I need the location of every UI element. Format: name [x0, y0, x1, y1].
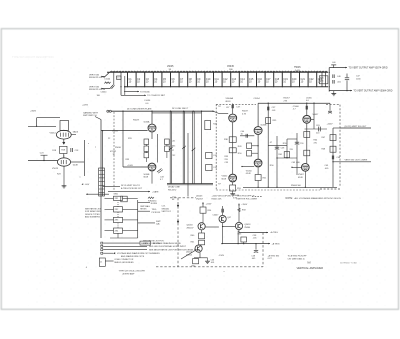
wire right of V5034 column: [157, 134, 159, 163]
wire V5052 cathode: [232, 182, 234, 185]
wire V5057 plate riser: [313, 103, 315, 129]
capacitor C5048: [332, 156, 334, 160]
wire wafer to common: [123, 230, 138, 232]
svg-text:PICKOFF: PICKOFF: [152, 212, 161, 214]
capacitor C5033: [157, 169, 162, 173]
capacitor C5058: [254, 250, 258, 252]
svg-text:DEVICE TYPES: DEVICE TYPES: [85, 214, 100, 216]
svg-text:NOTE:: NOTE:: [286, 197, 294, 200]
wire dashed enclosure bottom: [320, 188, 340, 190]
ground pickoff: [205, 261, 210, 263]
capacitor C9 of delay line: [196, 72, 201, 88]
svg-text:x: x: [95, 146, 96, 148]
svg-text:C.B.: C.B.: [162, 206, 166, 208]
svg-text:6AU6: 6AU6: [73, 131, 79, 134]
resistor R5054: [200, 207, 206, 213]
switch wafer section SW4: [105, 228, 123, 233]
legend connector box symbol: [99, 258, 105, 266]
ground input stage: [62, 186, 67, 188]
capacitor C7 of delay line: [179, 72, 184, 88]
termination network box: [319, 76, 328, 84]
arrow marks on enclosure left: [177, 205, 179, 207]
wire Q5043 to Q5047: [205, 226, 219, 228]
wire delay line single run: [201, 111, 203, 183]
resistor R5031: [144, 139, 149, 145]
svg-text:L5034: L5034: [145, 100, 152, 102]
resistor R5055: [266, 118, 271, 124]
svg-text:RED LED IN EXTERNAL HORIZ INP: RED LED IN EXTERNAL HORIZ INPUT: [149, 245, 187, 248]
wire V5040A plate up: [232, 104, 234, 114]
resistor R5063: [241, 237, 247, 242]
wire C5044 to bus: [113, 72, 115, 85]
resistor R5047: [330, 135, 336, 141]
capacitor C5023: [41, 154, 48, 156]
capacitor C15 of delay line: [247, 72, 254, 88]
capacitor C2 of delay line: [136, 72, 141, 88]
wire Q5043 collector supply: [202, 202, 204, 207]
wire bias chain vertical: [267, 103, 269, 187]
svg-text:C5047: C5047: [213, 215, 220, 217]
capacitor C11 of delay line: [213, 72, 219, 88]
wire driver plate line: [111, 110, 213, 112]
svg-text:VERT SIG OUT LOWER: VERT SIG OUT LOWER: [345, 160, 368, 162]
wire termination output node: [328, 68, 330, 92]
svg-text:GANGED WITH: GANGED WITH: [83, 111, 98, 114]
wire Q5054 emitter: [199, 252, 201, 258]
wire second drop: [124, 76, 126, 95]
capacitor C5046a: [333, 74, 334, 78]
capacitor C17 of delay line: [265, 72, 272, 88]
transistor Q5047: [219, 215, 226, 222]
svg-text:+225V DECOUPLED: +225V DECOUPLED: [212, 196, 232, 198]
svg-text:L5065: L5065: [306, 97, 312, 99]
svg-text:RG-65/U: RG-65/U: [168, 189, 177, 191]
inductor L5046: [331, 64, 336, 66]
resistor R5048: [330, 146, 336, 152]
wire between cascode tubes: [257, 135, 259, 159]
wire V5014 cathode down: [63, 139, 65, 143]
capacitor C10 of delay line: [204, 72, 211, 88]
resistor R5061: [199, 240, 205, 245]
wire V5034A cathode down: [151, 132, 153, 139]
svg-text:FROM PLUG-IN: FROM PLUG-IN: [89, 89, 105, 91]
wire R5061 to Q5054: [201, 244, 203, 247]
wire V5067 cathode: [304, 172, 306, 188]
transistor Q5054: [195, 245, 202, 252]
wire pickoff dashed enclosure right: [262, 233, 264, 267]
svg-text:NORM: NORM: [151, 203, 157, 205]
svg-text:(DLYD) VERT SIG OUT: (DLYD) VERT SIG OUT: [345, 126, 368, 128]
svg-text:TO R5046: TO R5046: [140, 91, 150, 93]
arrow supply Q5053: [238, 204, 240, 206]
svg-text:V5014: V5014: [50, 133, 57, 135]
resistor R5041: [205, 121, 211, 130]
resistor R5039: [229, 148, 236, 153]
wire between R5032 R5033: [145, 152, 147, 153]
wire bias h1: [268, 145, 287, 147]
capacitor C5058m: [275, 147, 279, 149]
svg-text:Q5053: Q5053: [244, 224, 251, 226]
resistor R5033: [144, 153, 149, 158]
wire V5023 plate right: [71, 161, 85, 163]
wire delay line bottom bus: [124, 86, 328, 88]
capacitor C22 of delay line: [308, 72, 315, 88]
wire wafer dashed link 3: [117, 223, 119, 228]
wire output column down: [306, 124, 308, 164]
svg-text:C5044: C5044: [101, 92, 108, 94]
tube V5040B: [254, 127, 262, 135]
wire cathode line: [288, 186, 337, 188]
wire mid bias vertical 3: [296, 133, 298, 175]
svg-text:SWP MAG: SWP MAG: [140, 205, 150, 208]
svg-text:A VERT AMP: A VERT AMP: [123, 272, 135, 275]
wire Q5043 emitter down: [201, 230, 203, 233]
wire ganged diagonal: [95, 117, 101, 120]
wire feedback top: [37, 117, 60, 119]
svg-text:VOLTAGE AND WAVEFORM CKT NUMBE: VOLTAGE AND WAVEFORM CKT NUMBERS: [117, 252, 160, 255]
legend item 3: [101, 248, 202, 251]
wire V5023 cathode down: [63, 166, 65, 171]
capacitor C20 of delay line: [290, 72, 297, 88]
svg-text:SEE MECH PARTS LIST FOR SWITCH: SEE MECH PARTS LIST FOR SWITCH DETAIL PA…: [149, 248, 202, 251]
wire pickoff dashed enclosure left: [177, 198, 179, 267]
wire V5057 plate right: [311, 118, 314, 120]
svg-text:4.7K: 4.7K: [242, 113, 247, 115]
wire mid bias vertical 2: [286, 139, 288, 158]
tube V5023: [57, 158, 70, 166]
transistor Q5043: [198, 223, 205, 230]
wire to pickoff label: [103, 185, 120, 187]
svg-text:FROM PLUG-IN: FROM PLUG-IN: [89, 77, 105, 79]
legend item 2: [101, 245, 187, 248]
wire below R5036: [166, 152, 168, 159]
wire R5054 to Q5043: [202, 213, 204, 222]
tube V5034A: [148, 124, 156, 132]
svg-text:R5045 10K: R5045 10K: [212, 198, 223, 200]
capacitor C5037: [232, 105, 234, 109]
resistor R5035: [165, 139, 170, 145]
svg-text:+A TRIG: +A TRIG: [270, 231, 278, 234]
arrow +225V into pickoff: [202, 202, 204, 204]
tube V5067: [301, 163, 309, 171]
wire switch out 2: [138, 210, 150, 212]
wire V5034B cathode to bus: [151, 171, 153, 183]
wire amplifier dashed enclosure bottom: [216, 189, 320, 191]
resistor R5071: [121, 196, 127, 202]
wire to V5040A grid a: [213, 111, 219, 113]
svg-text:〈A〉: 〈A〉: [306, 260, 313, 264]
wire pickoff tap 2: [121, 94, 146, 96]
wire below R5033: [145, 158, 147, 162]
svg-text:27K: 27K: [284, 100, 288, 102]
capacitor C14 of delay line: [239, 72, 246, 88]
svg-text:2N2207: 2N2207: [196, 198, 204, 200]
svg-text:5040B: 5040B: [261, 124, 267, 126]
svg-text:SEE PARTS LIST: SEE PARTS LIST: [85, 207, 102, 210]
svg-text:AND WAVEFORM CKTS: AND WAVEFORM CKTS: [121, 255, 145, 258]
svg-text:TRIG: TRIG: [152, 209, 157, 211]
wire V5050 grid: [242, 166, 254, 168]
capacitor C19 of delay line: [282, 72, 289, 88]
svg-text:DLY LINE 186 FT: DLY LINE 186 FT: [172, 108, 189, 110]
svg-text:CKT (SEE DIAG 2): CKT (SEE DIAG 2): [288, 257, 305, 260]
svg-text:547/RM: 547/RM: [141, 243, 148, 245]
tube V5034B: [148, 163, 156, 171]
capacitor C13 of delay line: [230, 72, 237, 88]
legend item 4: [101, 252, 160, 258]
capacitor C5040g: [246, 134, 248, 138]
wire R5050 to node: [252, 152, 259, 154]
wire cathode line far left: [243, 186, 268, 188]
wire dashed stub R5043: [252, 195, 262, 197]
svg-text:2N964: 2N964: [186, 254, 193, 256]
switch wafer section SW3: [105, 217, 123, 222]
svg-text:R5066 560: R5066 560: [291, 185, 302, 187]
svg-text:T.P.: T.P.: [218, 106, 222, 108]
resistor R5018: [60, 146, 67, 153]
svg-text:SWP: SWP: [156, 221, 161, 223]
capacitor C16 of delay line: [256, 72, 263, 88]
svg-text:VERT SIG: VERT SIG: [89, 74, 99, 76]
svg-text:R5037: R5037: [242, 111, 249, 113]
resistor R5060: [199, 233, 205, 239]
svg-text:x: x: [88, 143, 89, 145]
svg-text:V5057: V5057: [313, 114, 320, 116]
wire legend connector stub: [105, 260, 113, 262]
svg-text:V5067: V5067: [298, 174, 305, 176]
wire trig sig out upper: [239, 232, 268, 234]
svg-text:V5050: V5050: [246, 170, 253, 172]
svg-text:SWP SWITCH: SWP SWITCH: [83, 115, 97, 117]
wire delay line top bus: [107, 71, 328, 73]
svg-text:TRIG PICKOFF CF: TRIG PICKOFF CF: [237, 196, 256, 198]
resistor R5045 termination leg 1: [321, 72, 323, 87]
wire switch out 1: [138, 201, 150, 203]
tube V5057: [303, 115, 311, 123]
tube V5040A: [229, 114, 237, 122]
wire C5058 leg: [255, 244, 257, 250]
wire left drop to pickoff: [120, 72, 122, 95]
wire Q5047 to Q5053 base: [223, 226, 236, 228]
wire bias h2: [287, 138, 297, 140]
capacitor C5059: [295, 142, 299, 144]
ground at termination: [331, 94, 336, 96]
resistor R5062: [193, 259, 199, 264]
svg-text:2N2207: 2N2207: [187, 227, 195, 229]
svg-text:Q5054: Q5054: [186, 252, 193, 254]
svg-text:TO C5046 RC NET: TO C5046 RC NET: [147, 95, 166, 97]
svg-text:C5054: C5054: [254, 98, 261, 100]
wire switch common vertical: [137, 200, 139, 238]
wire V5040B grid: [240, 135, 254, 137]
arrow trigger output: [268, 243, 270, 245]
capacitor C5046b: [333, 80, 334, 84]
svg-text:TO A TRIG PICKOFF: TO A TRIG PICKOFF: [288, 255, 308, 258]
wire upper input to bus: [102, 72, 110, 76]
resistor R5036: [165, 146, 170, 152]
svg-text:x: x: [80, 177, 81, 179]
capacitor C5057: [267, 107, 269, 111]
wire V5057 cathode lateral: [305, 128, 328, 130]
svg-text:6DJ8: 6DJ8: [73, 164, 79, 166]
svg-text:L5045: L5045: [167, 66, 174, 68]
svg-text:+150V: +150V: [241, 204, 248, 206]
svg-text:+GATE: +GATE: [152, 190, 159, 193]
wire Q5047 emitter down: [222, 223, 224, 244]
capacitor C5 of delay line: [161, 72, 166, 88]
wire lower branch: [86, 193, 109, 195]
wire delay line partial run: [187, 133, 189, 197]
connector J5030 (cable header): [99, 168, 105, 196]
svg-text:DELAY LINE: DELAY LINE: [168, 186, 180, 189]
capacitor C23 of delay line: [316, 72, 323, 88]
resistor R5064: [304, 132, 310, 138]
svg-text:SHIELD GROUNDED: SHIELD GROUNDED: [114, 262, 134, 264]
svg-text:+A TRIG SIG: +A TRIG SIG: [268, 254, 280, 257]
resistor R5050: [247, 151, 252, 156]
resistor R5059: [284, 152, 289, 158]
arrow current mark: [63, 142, 65, 144]
wire delay line bottom return 1: [167, 183, 213, 185]
wire V5034B grid: [123, 166, 148, 168]
wire between R5035 R5036: [166, 145, 168, 147]
svg-text:Q5043: Q5043: [187, 225, 194, 227]
wire dashed enclosure top: [326, 104, 340, 106]
svg-text:A TRIG PICKOFF CKT: A TRIG PICKOFF CKT: [121, 187, 143, 190]
svg-text:TYPE 547 OSCILLOSCOPE: TYPE 547 OSCILLOSCOPE: [119, 271, 146, 273]
wire to V5034A grid: [101, 130, 148, 132]
svg-text:SW5031: SW5031: [162, 208, 171, 210]
wire lower signal output: [340, 161, 371, 163]
svg-text:R5057: R5057: [284, 98, 291, 100]
wire lower output to vert output amp: [329, 90, 352, 92]
svg-text:+350V: +350V: [30, 111, 37, 113]
wire +225V rail: [258, 102, 330, 104]
svg-text:DLYD VERT SIG TO: DLYD VERT SIG TO: [121, 185, 140, 187]
capacitor C5062: [328, 111, 332, 113]
svg-text:VERTICAL AMPLIFIER: VERTICAL AMPLIFIER: [297, 266, 324, 270]
svg-text:5034B: 5034B: [144, 174, 150, 176]
svg-text:-150V: -150V: [219, 255, 225, 257]
wire wafer dashed link 2: [117, 212, 119, 217]
svg-text:COAX CONNECTOR: COAX CONNECTOR: [114, 258, 134, 261]
svg-text:T.P.: T.P.: [218, 184, 222, 186]
svg-text:+225V: +225V: [327, 124, 334, 126]
resistor R5070 squiggle: [148, 197, 154, 199]
wire V5050 cathode: [257, 167, 259, 174]
wire Q5053 emitter down: [238, 230, 240, 233]
wire wafer dashed link 1: [117, 202, 119, 207]
svg-text:6DJ8: 6DJ8: [226, 101, 232, 103]
wire upper signal output: [340, 127, 371, 129]
svg-text:FOR SEMICOND: FOR SEMICOND: [85, 211, 101, 213]
capacitor C5018: [71, 148, 73, 152]
wire wafer to common: [123, 219, 138, 221]
svg-text:VERT DLY: VERT DLY: [162, 211, 172, 213]
resistor R5042: [206, 152, 212, 158]
wire output divider vertical: [332, 128, 334, 187]
svg-text:2N964: 2N964: [244, 227, 251, 229]
svg-text:AND NUMBERS: AND NUMBERS: [85, 216, 100, 219]
wire delay line pair 2: [183, 111, 185, 183]
wire between R5031 R5032: [145, 145, 147, 147]
wire wafer bottom drop: [117, 233, 119, 238]
svg-text:R5030: R5030: [115, 147, 122, 149]
capacitor C8 of delay line: [187, 72, 192, 88]
resistor R5045 termination leg 2: [325, 72, 327, 87]
capacitor C4 of delay line: [153, 72, 158, 88]
wire diagonal into Q5054: [181, 250, 195, 259]
svg-text:5034A: 5034A: [144, 121, 150, 124]
svg-text:+225V: +225V: [206, 204, 213, 206]
wire rail corner down: [329, 103, 331, 110]
wire driver feedback vertical: [122, 111, 124, 167]
legend item 1: [101, 241, 182, 245]
capacitor C5045p: [222, 209, 224, 213]
svg-text:+50V: +50V: [85, 184, 90, 186]
arrow dly vert sig left: [82, 183, 84, 185]
wire bias h3: [277, 157, 297, 159]
resistor R5058 tick: [238, 208, 241, 212]
wire switch out 3: [138, 222, 155, 224]
wire R5051 to cathode line: [257, 181, 259, 188]
svg-text:V5040A: V5040A: [226, 97, 234, 100]
box LC network: [117, 76, 122, 79]
wire Q5053 collector: [238, 204, 240, 223]
resistor R5051: [255, 175, 261, 181]
svg-text:Q5043: Q5043: [196, 196, 203, 198]
wire V5034A plate up: [151, 111, 153, 124]
transistor Q5053: [235, 222, 242, 229]
svg-text:547/RM547 TU AB: 547/RM547 TU AB: [340, 261, 357, 264]
wire feedback left: [36, 118, 38, 127]
wire wafer to common: [123, 208, 138, 210]
svg-text:TO VERT OUTPUT AMP V5074 GRID: TO VERT OUTPUT AMP V5074 GRID: [349, 67, 388, 70]
wire amplifier dashed enclosure top: [216, 103, 256, 105]
wire V5014 plate stub: [71, 134, 76, 136]
switch wafer section SW1: [105, 196, 123, 200]
wire delay line pair 3: [193, 111, 195, 183]
resistor R5049: [247, 143, 252, 149]
svg-text:ALL VOLTAGES MEASURED WITH NO: ALL VOLTAGES MEASURED WITH NO SIG IN: [295, 197, 342, 200]
continuation slash marks: [169, 147, 173, 150]
inductor humps on top bus: [110, 71, 328, 72]
capacitor C6 of delay line: [170, 72, 175, 88]
capacitor C5044: [110, 85, 113, 89]
capacitor C12 of delay line: [222, 72, 229, 88]
wire wafer to common: [123, 197, 138, 199]
wire delay line bottom return 2: [167, 184, 213, 186]
tube V5052: [229, 174, 237, 182]
svg-text:C5030: C5030: [112, 131, 119, 133]
svg-text:T5045: T5045: [294, 67, 301, 69]
wire input to V5023 grid: [28, 160, 57, 162]
wire amplifier dashed enclosure left: [215, 104, 217, 190]
switch wafer section SW2: [105, 207, 123, 212]
resistor R5032: [144, 146, 149, 152]
resistor R5038: [229, 137, 236, 143]
wire pickoff dashed enclosure bottom: [156, 266, 263, 268]
svg-text:C5060: C5060: [293, 106, 300, 108]
wire wafer bottom bus: [110, 237, 138, 239]
svg-text:VERT SIG: VERT SIG: [89, 86, 99, 88]
svg-text:L5044: L5044: [105, 79, 111, 81]
wire upper output to vert output amp: [329, 67, 347, 69]
capacitor C3 of delay line: [144, 72, 149, 88]
wire cable run right: [102, 131, 104, 196]
wire lower input: [102, 88, 111, 90]
svg-text:TO VERT OUTPUT AMP V5084 GRID: TO VERT OUTPUT AMP V5084 GRID: [353, 90, 392, 93]
